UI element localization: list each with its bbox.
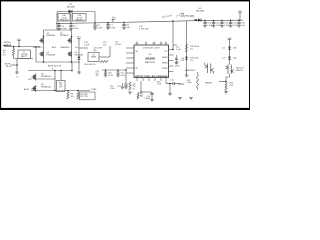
svg-text:Cm: Cm <box>75 47 78 49</box>
svg-text:R9 4.02k 1%: R9 4.02k 1% <box>84 64 96 66</box>
svg-text:0.68uF: 0.68uF <box>144 98 150 100</box>
svg-text:B0540W: B0540W <box>67 6 75 8</box>
svg-text:NTC TH: NTC TH <box>81 96 89 98</box>
svg-text:R12: R12 <box>118 86 121 88</box>
svg-text:CLK: CLK <box>160 43 163 45</box>
svg-text:B0540W: B0540W <box>196 11 204 13</box>
svg-text:EN: EN <box>165 43 167 45</box>
svg-text:FDS8449: FDS8449 <box>47 54 56 56</box>
svg-text:49.9k: 49.9k <box>175 65 180 67</box>
svg-text:4.7uF 16V: 4.7uF 16V <box>139 28 149 30</box>
svg-text:FDS8449: FDS8449 <box>60 35 69 37</box>
svg-text:FDS86540: FDS86540 <box>41 76 51 78</box>
svg-text:1%: 1% <box>190 60 193 62</box>
svg-text:VCC: VCC <box>164 51 167 53</box>
svg-text:4.5V TO 28V: 4.5V TO 28V <box>181 15 195 18</box>
svg-text:WINDING: WINDING <box>60 19 69 21</box>
svg-text:OUTPUT SYNC LATCH PWRGND: OUTPUT SYNC LATCH PWRGND <box>135 75 168 78</box>
svg-text:2k TH: 2k TH <box>108 75 113 77</box>
svg-text:BST: BST <box>136 43 139 45</box>
svg-text:1.00k: 1.00k <box>157 84 161 86</box>
svg-text:1.00k: 1.00k <box>187 82 192 84</box>
svg-text:C14: C14 <box>170 80 173 82</box>
svg-text:Ω/W TH: Ω/W TH <box>236 70 243 72</box>
svg-text:AOUT-: AOUT- <box>24 88 30 91</box>
svg-text:4.7uF: 4.7uF <box>110 27 116 29</box>
svg-text:NDRH: NDRH <box>162 63 168 65</box>
svg-text:LED: LED <box>233 58 237 60</box>
svg-text:1%: 1% <box>190 48 193 50</box>
svg-text:WINDING: WINDING <box>75 19 84 21</box>
svg-text:NDRV: NDRV <box>162 57 168 59</box>
svg-text:0.1uF: 0.1uF <box>84 44 90 46</box>
svg-text:ACD: ACD <box>52 46 57 49</box>
svg-text:COMP: COMP <box>91 89 98 91</box>
svg-text:SiA446DY: SiA446DY <box>33 46 43 49</box>
svg-text:4.7uF: 4.7uF <box>97 28 103 30</box>
svg-text:DMMT5401: DMMT5401 <box>185 70 196 72</box>
svg-text:186k: 186k <box>139 96 143 98</box>
svg-text:4.7k: 4.7k <box>230 85 234 87</box>
svg-text:1%: 1% <box>59 87 62 89</box>
svg-text:FDS86540: FDS86540 <box>41 86 51 88</box>
svg-text:ACFB 78.7k 1%: ACFB 78.7k 1% <box>48 64 62 67</box>
svg-text:PGND: PGND <box>162 68 168 70</box>
svg-text:PA2777: PA2777 <box>21 55 28 58</box>
svg-text:+: + <box>52 66 54 70</box>
svg-text:LX CIRCUIT CLK IN: LX CIRCUIT CLK IN <box>142 47 160 49</box>
svg-text:COMP: COMP <box>178 84 185 86</box>
svg-text:FDS8449: FDS8449 <box>47 35 56 37</box>
svg-text:0.22uF: 0.22uF <box>115 44 122 46</box>
svg-text:0.1uF: 0.1uF <box>176 49 182 51</box>
svg-text:LX: LX <box>145 43 147 45</box>
svg-text:D3: D3 <box>223 48 225 50</box>
svg-text:MAX15034: MAX15034 <box>145 61 156 64</box>
svg-text:1%: 1% <box>3 55 6 57</box>
svg-text:10k: 10k <box>71 96 74 98</box>
svg-text:SiA446DY: SiA446DY <box>61 46 71 49</box>
svg-text:1%: 1% <box>133 88 136 90</box>
svg-text:XFMR: XFMR <box>91 57 97 59</box>
svg-text:LED: LED <box>233 48 237 50</box>
svg-text:SENSE: SENSE <box>205 82 212 84</box>
svg-text:D4: D4 <box>223 58 225 60</box>
svg-text:MAXIM: MAXIM <box>145 56 155 60</box>
svg-text:4.7uF: 4.7uF <box>73 28 79 30</box>
